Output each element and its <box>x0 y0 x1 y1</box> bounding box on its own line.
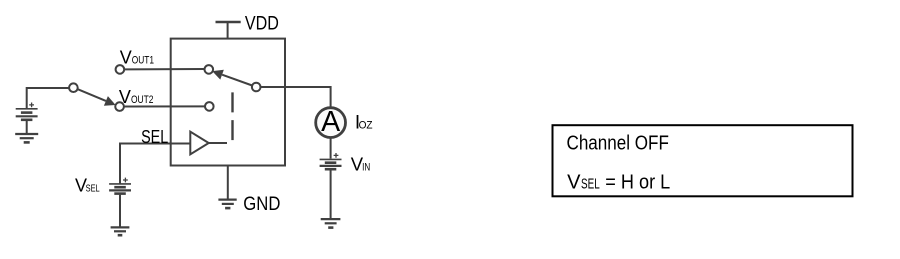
wire battery B1 to switch S2 pole <box>27 88 69 108</box>
svg-text:IN: IN <box>362 161 370 173</box>
battery VIN <box>320 153 342 219</box>
switch S1 contact 1 circle <box>205 65 214 74</box>
svg-text:Channel OFF: Channel OFF <box>567 132 669 154</box>
svg-text:SEL: SEL <box>141 127 168 147</box>
IC box U1 <box>171 39 285 166</box>
node VOUT2 terminal circle <box>115 102 124 111</box>
ground symbol GND <box>218 200 236 209</box>
label VSEL <box>75 176 100 196</box>
svg-text:SEL: SEL <box>86 184 100 195</box>
svg-text:V: V <box>120 48 132 68</box>
ground below battery VIN <box>321 219 341 228</box>
svg-text:SEL: SEL <box>581 175 600 192</box>
ground below battery B1 <box>15 134 38 142</box>
battery B1 <box>16 103 38 134</box>
svg-text:= H or L: = H or L <box>605 171 670 193</box>
GND pin stem <box>227 166 229 200</box>
switch S1 common pole circle <box>252 83 261 92</box>
label VIN <box>351 153 370 174</box>
switch S2 pole circle <box>69 83 78 92</box>
label IOZ <box>355 112 373 133</box>
svg-text:V: V <box>567 171 581 193</box>
svg-text:OUT1: OUT1 <box>132 55 154 67</box>
buffer U2 triangle <box>190 132 208 155</box>
wire common pole to ammeter <box>261 87 331 107</box>
wire VOUT1 terminal to switch contact 1 <box>124 68 205 70</box>
VDD power bar <box>216 22 241 39</box>
label VOUT1 <box>120 48 154 68</box>
svg-text:VDD: VDD <box>245 13 279 34</box>
svg-text:A: A <box>321 106 340 138</box>
ground below battery VSEL <box>111 227 130 235</box>
annotation box <box>553 125 853 196</box>
ammeter A1 circle <box>316 108 346 138</box>
annotation text VSEL = H or L <box>567 171 670 193</box>
switch S1 contact 2 circle <box>205 102 214 111</box>
wire buffer output <box>209 142 227 144</box>
node VOUT1 terminal circle <box>116 65 125 74</box>
wire ammeter to battery VIN <box>330 138 332 159</box>
svg-text:GND: GND <box>243 194 280 215</box>
wire VOUT2 terminal to switch contact 2 <box>124 105 205 107</box>
switch S2 throw arm with arrowhead into VOUT2 terminal <box>77 89 115 106</box>
label VOUT2 <box>119 87 154 107</box>
svg-text:V: V <box>119 87 131 107</box>
wire SEL input from VSEL to buffer <box>120 144 190 184</box>
svg-text:OZ: OZ <box>359 119 373 131</box>
battery VSEL <box>109 178 131 227</box>
switch S1 arm with arrowhead toward contact 1 <box>212 70 252 86</box>
dashed linkage line <box>231 92 233 140</box>
svg-text:OUT2: OUT2 <box>131 94 154 106</box>
